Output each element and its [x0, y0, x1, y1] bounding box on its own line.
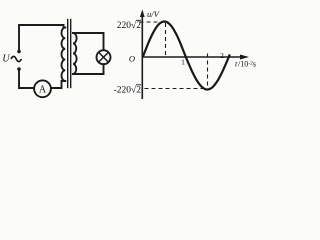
svg-text:220√2: 220√2	[117, 20, 141, 31]
svg-text:-220√2: -220√2	[114, 85, 142, 96]
svg-text:u/V: u/V	[147, 9, 161, 19]
svg-text:U: U	[2, 54, 10, 65]
svg-text:A: A	[39, 84, 47, 95]
svg-text:O: O	[129, 54, 135, 64]
svg-text:1: 1	[181, 58, 185, 67]
svg-text:2: 2	[220, 51, 224, 60]
svg-text:/10-2s: /10-2s	[238, 60, 256, 69]
